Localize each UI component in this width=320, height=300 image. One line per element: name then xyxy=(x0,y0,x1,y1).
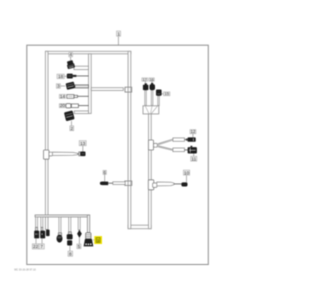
svg-text:17: 17 xyxy=(143,78,147,82)
svg-text:7: 7 xyxy=(40,244,43,249)
svg-text:MC 33-10-28 97.10: MC 33-10-28 97.10 xyxy=(14,269,36,272)
svg-text:11: 11 xyxy=(191,156,196,161)
svg-text:12: 12 xyxy=(191,129,196,134)
svg-text:10: 10 xyxy=(184,170,190,175)
svg-text:16: 16 xyxy=(150,78,154,82)
svg-text:4: 4 xyxy=(69,52,72,57)
svg-text:18: 18 xyxy=(58,74,64,79)
svg-text:1: 1 xyxy=(117,31,120,36)
svg-text:22: 22 xyxy=(33,244,39,249)
svg-text:20: 20 xyxy=(60,103,66,108)
svg-text:14: 14 xyxy=(60,94,66,99)
svg-text:3: 3 xyxy=(57,84,60,89)
svg-text:2: 2 xyxy=(71,126,74,131)
svg-text:5: 5 xyxy=(78,244,81,249)
svg-text:13: 13 xyxy=(80,141,86,146)
svg-text:15: 15 xyxy=(164,91,169,96)
svg-text:8: 8 xyxy=(69,251,72,256)
